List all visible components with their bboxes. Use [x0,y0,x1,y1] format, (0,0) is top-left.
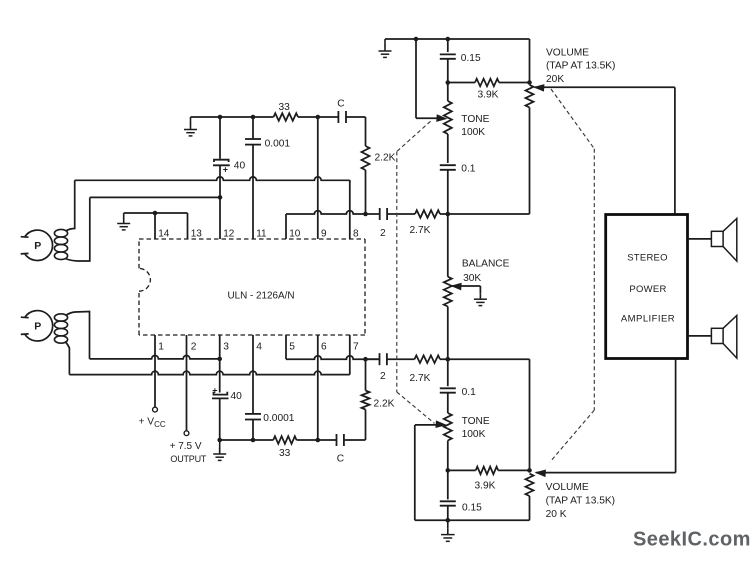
svg-text:P: P [34,240,41,252]
svg-text:33: 33 [279,102,291,113]
svg-text:(TAP AT 13.5K): (TAP AT 13.5K) [546,61,615,72]
svg-text:BALANCE: BALANCE [462,259,510,270]
svg-text:7: 7 [353,342,359,353]
svg-text:AMPLIFIER: AMPLIFIER [621,314,675,325]
svg-text:100K: 100K [462,429,486,440]
svg-text:TONE: TONE [461,114,489,125]
svg-text:+: + [223,165,228,175]
svg-text:40: 40 [234,161,246,172]
svg-text:0.1: 0.1 [462,387,476,398]
svg-text:1: 1 [158,342,164,353]
svg-text:2.7K: 2.7K [410,225,431,236]
svg-text:30K: 30K [463,273,481,284]
svg-text:C: C [337,99,344,110]
svg-text:4: 4 [256,342,262,353]
svg-text:0.15: 0.15 [462,503,482,514]
svg-text:+: + [212,385,217,395]
svg-text:20 K: 20 K [546,509,567,520]
svg-text:VOLUME: VOLUME [546,482,589,493]
svg-text:2: 2 [191,342,197,353]
svg-text:40: 40 [231,391,243,402]
svg-text:0.15: 0.15 [461,53,481,64]
svg-text:3.9K: 3.9K [478,90,499,101]
svg-text:2.2K: 2.2K [375,153,396,164]
svg-text:12: 12 [223,228,235,239]
svg-text:STEREO: STEREO [627,253,668,264]
svg-text:0.001: 0.001 [265,138,291,149]
svg-text:5: 5 [289,342,295,353]
svg-text:0.0001: 0.0001 [263,413,294,424]
svg-text:P: P [34,321,41,333]
svg-text:20K: 20K [546,74,564,85]
svg-text:VOLUME: VOLUME [546,47,589,58]
svg-text:10: 10 [289,228,301,239]
svg-text:100K: 100K [461,127,485,138]
svg-text:3.9K: 3.9K [475,481,496,492]
svg-text:0.1: 0.1 [461,164,475,175]
svg-text:2.7K: 2.7K [410,373,431,384]
svg-text:ULN - 2126A/N: ULN - 2126A/N [228,291,295,302]
svg-text:+ 7.5 V: + 7.5 V [170,441,202,452]
svg-text:14: 14 [158,228,170,239]
svg-text:(TAP AT 13.5K): (TAP AT 13.5K) [546,496,615,507]
svg-text:2: 2 [380,371,386,382]
svg-text:33: 33 [279,448,291,459]
svg-text:9: 9 [321,228,327,239]
svg-text:TONE: TONE [462,416,490,427]
svg-text:8: 8 [353,228,359,239]
svg-text:2.2K: 2.2K [374,399,395,410]
svg-text:3: 3 [223,342,229,353]
svg-text:6: 6 [321,342,327,353]
svg-text:SeekIC.com: SeekIC.com [633,529,751,551]
svg-text:13: 13 [191,228,203,239]
svg-text:OUTPUT: OUTPUT [170,454,207,464]
svg-text:2: 2 [380,228,386,239]
svg-text:11: 11 [256,228,267,239]
svg-text:POWER: POWER [629,284,666,295]
svg-text:C: C [337,454,344,465]
